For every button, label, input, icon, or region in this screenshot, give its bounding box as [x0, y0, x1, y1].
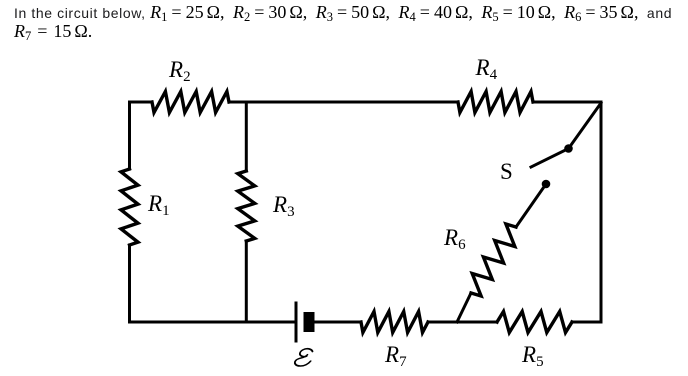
wire top-left stub [130, 101, 153, 104]
wire right side [600, 102, 603, 322]
wire left lower [128, 245, 131, 322]
resistor R5 [497, 312, 572, 333]
resistor R3 [238, 171, 255, 241]
switch lower lead [516, 184, 546, 227]
svg-text:R7: R7 [384, 342, 407, 370]
label EMF script E [294, 349, 314, 366]
switch terminal dot upper [564, 144, 573, 153]
svg-text:S: S [500, 159, 513, 184]
battery long plate [295, 303, 298, 341]
resistor R4 [458, 92, 533, 113]
svg-text:R2: R2 [168, 57, 191, 85]
resistor R7 [361, 312, 428, 333]
resistor R6 [471, 224, 516, 296]
svg-text:R6: R6 [443, 225, 466, 253]
svg-text:R4: R4 [475, 55, 498, 83]
wire battery to R7 [315, 321, 361, 324]
svg-text:R5: R5 [521, 342, 544, 370]
switch terminal dot lower [542, 180, 551, 189]
wire top-right [533, 101, 601, 104]
switch blade [531, 149, 569, 168]
resistor R1 [121, 169, 138, 245]
battery short plate [304, 312, 315, 332]
wire left upper [128, 102, 131, 169]
svg-text:R1: R1 [147, 191, 170, 219]
wire R7 to R5 with junction [428, 321, 497, 324]
wire bottom left [130, 321, 295, 324]
wire bottom right [572, 321, 601, 324]
svg-text:R3: R3 [272, 192, 295, 220]
wire top middle [229, 101, 458, 104]
wire R3 branch upper [245, 102, 248, 171]
wire R6 to junction [457, 293, 471, 322]
wire R3 branch lower [245, 241, 248, 322]
resistor R2 [152, 92, 229, 113]
switch upper lead [569, 103, 602, 149]
